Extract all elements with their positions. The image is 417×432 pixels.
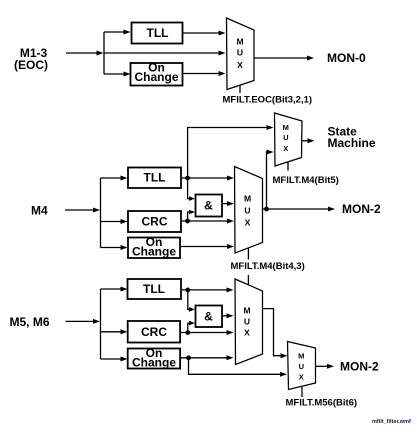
mux U1 (EOC monitor mux) [227,18,255,90]
wire TLL (bot) out to MUX U4 [181,287,234,292]
svg-text:MFILT.EOC(Bit3,2,1): MFILT.EOC(Bit3,2,1) [223,95,313,106]
svg-text:TLL: TLL [143,282,165,296]
svg-text:M: M [236,37,243,47]
svg-text:TLL: TLL [147,26,169,40]
svg-text:M: M [243,306,250,316]
node MON-2 (mid) output label [342,202,381,216]
wire junction to On Change (bot) [101,357,128,362]
svg-text:X: X [237,60,243,70]
svg-text:MFILT.M56(Bit6): MFILT.M56(Bit6) [286,397,358,408]
wire M4 to junction [65,208,100,213]
junction dot CRC (mid) out [185,219,190,224]
wire AND (bot) out to MUX U4 [222,313,234,318]
junction dot On Change (bot) out [186,355,191,360]
wire junction vertical split [103,32,105,74]
wire M5,M6 junction vertical split [100,289,102,359]
wire U1 select tick [239,86,241,94]
junction dot CRC (bot) out [185,330,190,335]
wire On Change (mid) out to MUX U2 [180,244,234,249]
svg-text:Change: Change [132,355,176,369]
svg-text:X: X [245,218,251,228]
wire M1-3 to junction [66,51,104,56]
svg-text:TLL: TLL [144,171,166,185]
block CRC (bot) [128,321,180,343]
wire middle direct to MUX U1 [104,51,226,56]
wire TLL junction down to AND gate (mid) [188,178,195,201]
block TLL (bot) [128,279,182,299]
wire AND (mid) out to MUX U2 [222,201,234,206]
wire M4 junction vertical split [100,178,102,248]
svg-text:Change: Change [134,70,178,84]
svg-text:U: U [244,206,250,216]
node M5, M6 input label [10,315,50,329]
wire U2 out junction up to MUX U3 bottom input [267,150,274,210]
wire M5,M6 to junction [66,319,101,324]
svg-text:MON-2: MON-2 [340,360,379,374]
svg-text:MFILT.M4(Bit4,3): MFILT.M4(Bit4,3) [231,261,305,272]
wire U1 out to MON-0 [254,56,314,61]
svg-text:U: U [299,362,304,371]
wire CRC junction up to AND gate (bot) [188,321,195,333]
svg-text:M: M [244,194,251,204]
label MFILT.M4(Bit5) select [273,175,339,186]
node MON-0 output label [327,51,366,65]
svg-text:U: U [237,48,243,58]
label MFILT.EOC(Bit3,2,1) select [223,95,313,106]
wire junction to TLL (mid) [101,176,128,181]
wire junction to TLL [104,30,131,35]
svg-text:Change: Change [132,244,176,258]
block On Change (top) [131,61,183,86]
svg-text:MON-0: MON-0 [327,51,366,65]
wire junction to On Change [104,72,131,77]
svg-text:M4: M4 [31,204,48,218]
wire TLL junction up and over to MUX U3 top input [188,125,274,178]
junction dot TLL (bot) out [185,288,190,293]
wire U2 select tick [247,249,249,260]
junction dot U2 out [264,207,269,212]
svg-text:&: & [204,199,213,213]
svg-text:Machine: Machine [328,136,376,150]
mux U5 (M56 monitor mux) [288,342,316,390]
wire junction to On Change (mid) [101,245,128,250]
block TLL (mid) [128,168,181,189]
wire junction to CRC (mid) [101,219,128,224]
svg-text:MON-2: MON-2 [342,202,381,216]
svg-text:&: & [204,310,213,324]
wire CRC junction up to AND gate (mid) [188,210,195,221]
block CRC (mid) [128,211,181,232]
label MFILT.M4(Bit4,3) select [231,261,305,272]
wire TLL junction down to AND gate (bot) [188,290,195,312]
wire U5 out to MON-2 [316,364,335,369]
wire junction to CRC (bot) [101,329,128,334]
node M1-3 (EOC) input label [14,46,48,72]
block On Change (mid) [128,235,180,258]
wire On Change (bot) out to MUX U4 [180,355,234,360]
svg-text:CRC: CRC [141,325,167,339]
wire On Change junction down and over to MUX U5 bottom input [189,358,288,377]
wire U2 out to MON-2 [263,207,336,212]
wire U5 select tick [301,387,303,397]
block On Change (bot) [128,346,180,370]
node MON-2 (bottom) output label [340,360,379,374]
wire CRC (bot) out to MUX U4 [180,330,234,335]
AND gate (bot) [196,306,223,328]
node M4 input label [31,204,48,218]
block TLL (top) [132,23,183,44]
wire On Change out to MUX U1 [183,71,226,76]
svg-text:U: U [244,317,250,327]
svg-text:MFILT.M4(Bit5): MFILT.M4(Bit5) [273,175,339,186]
AND gate (mid) [196,195,223,217]
svg-text:M5, M6: M5, M6 [10,315,50,329]
label MFILT.M56(Bit6) select [286,397,358,408]
junction dot TLL (mid) out [185,176,190,181]
svg-text:M: M [298,351,304,360]
wire U4 select tick (up) [247,275,249,285]
wire U3 out to State Machine [302,138,315,143]
svg-text:mfilt_filter.wmf: mfilt_filter.wmf [372,419,411,425]
wire CRC (mid) out to MUX U2 [181,219,234,224]
wire U4 out down to MUX U5 top input [263,309,288,359]
svg-text:(EOC): (EOC) [14,58,48,72]
svg-text:X: X [283,144,288,153]
wire TLL (mid) out to MUX U2 [181,176,234,181]
wire U3 select tick [287,163,289,171]
wire TLL out to MUX U1 [183,31,226,36]
watermark mfilt_filter.wmf [372,419,411,425]
wire junction to TLL (bot) [101,287,128,292]
mux U2 (M4 monitor mux) [235,167,263,254]
node State Machine output label [328,124,376,150]
svg-text:X: X [244,328,250,338]
svg-text:M: M [283,123,289,132]
svg-text:U: U [283,133,288,142]
svg-text:X: X [299,373,304,382]
mux U3 (state machine mux) [275,113,303,166]
mux U4 (M5,M6 filter mux) [235,279,263,365]
svg-text:CRC: CRC [142,215,168,229]
